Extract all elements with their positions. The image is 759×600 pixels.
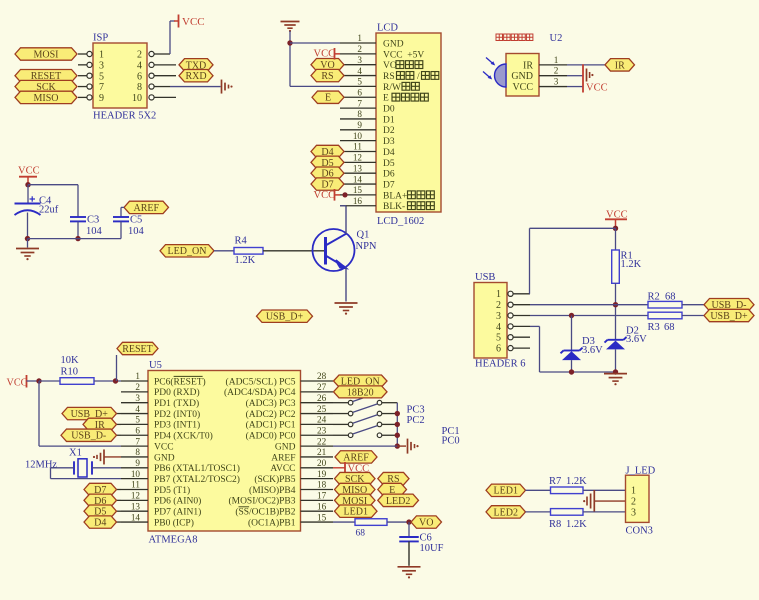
- svg-text:3.6V: 3.6V: [626, 334, 647, 345]
- svg-text:1.2K: 1.2K: [235, 255, 256, 266]
- svg-text:LED1: LED1: [494, 486, 518, 497]
- svg-text:VCC: VCC: [182, 16, 205, 28]
- svg-text:1: 1: [99, 50, 104, 61]
- svg-text:8: 8: [137, 82, 142, 93]
- svg-text:RS: RS: [383, 72, 395, 82]
- svg-text:(ADC2) PC2: (ADC2) PC2: [246, 409, 296, 420]
- svg-text:12MHz: 12MHz: [25, 459, 57, 470]
- svg-text:3: 3: [135, 393, 140, 403]
- svg-text:PD5 (T1): PD5 (T1): [154, 485, 190, 496]
- svg-text:5: 5: [99, 71, 104, 82]
- svg-text:J_LED: J_LED: [626, 465, 656, 476]
- svg-text:3: 3: [631, 507, 636, 518]
- svg-text:AREF: AREF: [343, 452, 369, 463]
- svg-text:(ADC3) PC3: (ADC3) PC3: [246, 398, 296, 409]
- svg-text:USB_D+: USB_D+: [710, 311, 748, 322]
- svg-text:CON3: CON3: [626, 526, 653, 537]
- svg-text:D7: D7: [383, 180, 395, 190]
- svg-text:D1: D1: [383, 115, 395, 125]
- svg-text:18B20: 18B20: [347, 387, 374, 398]
- svg-text:1.2K: 1.2K: [621, 259, 642, 270]
- svg-text:VCC: VCC: [154, 442, 174, 452]
- svg-text:5: 5: [135, 415, 140, 425]
- svg-text:1: 1: [554, 55, 559, 65]
- svg-text:8: 8: [357, 109, 362, 119]
- svg-text:D6: D6: [383, 170, 395, 180]
- svg-text:HEADER 5X2: HEADER 5X2: [93, 111, 156, 122]
- svg-text:U5: U5: [149, 360, 162, 371]
- svg-text:D3: D3: [383, 137, 395, 147]
- svg-text:LED1: LED1: [344, 507, 368, 518]
- svg-text:2: 2: [357, 44, 362, 54]
- svg-text:4: 4: [137, 60, 142, 71]
- svg-text:USB_D+: USB_D+: [266, 312, 304, 323]
- svg-text:20: 20: [317, 458, 327, 468]
- svg-text:D4: D4: [383, 148, 395, 158]
- svg-text:14: 14: [131, 512, 141, 522]
- svg-text:MOSI: MOSI: [33, 49, 58, 60]
- svg-text:17: 17: [317, 491, 327, 501]
- svg-text:7: 7: [99, 82, 104, 93]
- svg-text:24: 24: [317, 415, 327, 425]
- svg-text:28: 28: [317, 371, 327, 381]
- svg-text:PB0 (ICP): PB0 (ICP): [154, 517, 194, 528]
- svg-text:PB7 (XTAL2/TOSC2): PB7 (XTAL2/TOSC2): [154, 474, 240, 485]
- svg-text:104: 104: [86, 226, 103, 237]
- svg-text:3: 3: [357, 55, 362, 65]
- svg-text:2: 2: [631, 497, 636, 508]
- svg-text:D7: D7: [321, 179, 333, 190]
- svg-text:9: 9: [135, 458, 140, 468]
- svg-text:6: 6: [135, 425, 140, 435]
- svg-text:12: 12: [353, 153, 363, 163]
- svg-text:1: 1: [631, 486, 636, 497]
- svg-text:VCC: VCC: [586, 83, 608, 94]
- svg-text:RS: RS: [321, 71, 333, 82]
- svg-text:19: 19: [317, 469, 327, 479]
- svg-text:2: 2: [135, 382, 140, 392]
- svg-text:2: 2: [496, 300, 501, 311]
- svg-text:D0: D0: [383, 105, 395, 115]
- svg-text:8: 8: [135, 447, 140, 457]
- svg-text:4: 4: [496, 322, 501, 333]
- svg-text:PD4 (XCK/T0): PD4 (XCK/T0): [154, 431, 213, 442]
- svg-text:6: 6: [357, 87, 362, 97]
- svg-text:22uf: 22uf: [39, 205, 59, 216]
- svg-text:Q1: Q1: [357, 230, 370, 241]
- svg-text:C6: C6: [420, 533, 432, 544]
- svg-text:U2: U2: [550, 33, 563, 44]
- svg-text:R10: R10: [61, 366, 79, 377]
- svg-text:PD3 (INT1): PD3 (INT1): [154, 420, 200, 431]
- svg-text:PC2: PC2: [407, 415, 425, 426]
- svg-text:PD0 (RXD): PD0 (RXD): [154, 387, 200, 398]
- svg-text:2: 2: [137, 50, 142, 61]
- svg-text:X1: X1: [69, 448, 82, 459]
- svg-text:C3: C3: [87, 215, 99, 226]
- svg-text:68: 68: [356, 528, 366, 538]
- svg-text:R7: R7: [549, 476, 561, 487]
- svg-text:21: 21: [317, 447, 327, 457]
- svg-text:9: 9: [99, 93, 104, 104]
- svg-text:11: 11: [131, 480, 140, 490]
- svg-text:10: 10: [353, 131, 363, 141]
- svg-text:22: 22: [317, 436, 327, 446]
- svg-text:BLK-: BLK-: [383, 202, 405, 212]
- svg-text:15: 15: [353, 185, 363, 195]
- svg-text:5: 5: [496, 333, 501, 344]
- svg-text:15: 15: [317, 512, 327, 522]
- svg-text:R2: R2: [648, 292, 660, 303]
- svg-text:1: 1: [135, 371, 140, 381]
- svg-text:LCD_1602: LCD_1602: [377, 216, 424, 227]
- svg-text:1.2K: 1.2K: [566, 476, 587, 487]
- svg-text:VCC: VCC: [512, 82, 533, 93]
- svg-text:1: 1: [496, 289, 501, 300]
- svg-text:/: /: [417, 72, 420, 82]
- svg-text:GND: GND: [154, 453, 175, 463]
- svg-text:AVCC: AVCC: [270, 464, 295, 474]
- svg-text:14: 14: [353, 174, 363, 184]
- svg-text:(SS/OC1B)PB2: (SS/OC1B)PB2: [235, 507, 295, 518]
- svg-text:4: 4: [135, 404, 140, 414]
- svg-text:IR: IR: [615, 60, 625, 71]
- svg-text:VCC: VCC: [314, 49, 336, 60]
- svg-text:VCC +5V: VCC +5V: [383, 50, 424, 60]
- svg-text:RESET: RESET: [122, 344, 153, 355]
- svg-text:PD7 (AIN1): PD7 (AIN1): [154, 507, 201, 518]
- svg-text:(MOSI/OC2)PB3: (MOSI/OC2)PB3: [228, 496, 295, 507]
- svg-text:R8: R8: [549, 519, 561, 530]
- svg-text:6: 6: [137, 71, 142, 82]
- svg-text:3: 3: [496, 311, 501, 322]
- svg-text:E: E: [383, 94, 389, 104]
- svg-text:E: E: [325, 93, 331, 104]
- svg-text:ISP: ISP: [93, 33, 108, 44]
- svg-text:4: 4: [357, 66, 362, 76]
- svg-text:ATMEGA8: ATMEGA8: [149, 535, 198, 546]
- svg-text:C5: C5: [130, 215, 142, 226]
- svg-text:GND: GND: [275, 442, 296, 452]
- svg-text:10: 10: [131, 469, 141, 479]
- svg-text:LED2: LED2: [386, 496, 410, 507]
- svg-text:5: 5: [357, 77, 362, 87]
- svg-text:PC0: PC0: [442, 436, 460, 447]
- svg-text:6: 6: [496, 344, 501, 355]
- svg-text:(ADC0) PC0: (ADC0) PC0: [246, 431, 296, 442]
- svg-text:(MISO)PB4: (MISO)PB4: [249, 485, 296, 496]
- svg-text:1.2K: 1.2K: [566, 519, 587, 530]
- svg-text:(ADC1) PC1: (ADC1) PC1: [246, 420, 296, 431]
- svg-text:10UF: 10UF: [420, 543, 444, 554]
- svg-text:1: 1: [357, 33, 362, 43]
- svg-text:GND: GND: [383, 39, 404, 49]
- svg-text:11: 11: [353, 142, 362, 152]
- svg-text:GND: GND: [511, 71, 533, 82]
- svg-text:R4: R4: [235, 236, 248, 247]
- svg-text:(ADC4/SDA) PC4: (ADC4/SDA) PC4: [224, 387, 296, 398]
- svg-text:VCC: VCC: [18, 166, 40, 177]
- svg-text:(ADC5/SCL) PC5: (ADC5/SCL) PC5: [226, 376, 296, 387]
- svg-text:7: 7: [357, 98, 362, 108]
- svg-text:13: 13: [353, 163, 363, 173]
- svg-text:26: 26: [317, 393, 327, 403]
- svg-text:AREF: AREF: [271, 453, 295, 463]
- svg-text:16: 16: [353, 196, 363, 206]
- svg-text:27: 27: [317, 382, 327, 392]
- svg-text:3: 3: [554, 77, 559, 87]
- svg-text:D5: D5: [383, 159, 395, 169]
- svg-text:MISO: MISO: [33, 93, 58, 104]
- svg-text:R3: R3: [648, 322, 660, 333]
- svg-text:68: 68: [665, 292, 676, 303]
- svg-text:PB6 (XTAL1/TOSC1): PB6 (XTAL1/TOSC1): [154, 463, 240, 474]
- svg-text:3.6V: 3.6V: [582, 345, 603, 356]
- svg-text:2: 2: [554, 66, 559, 76]
- svg-text:13: 13: [131, 501, 141, 511]
- svg-text:D2: D2: [383, 126, 395, 136]
- svg-text:PD1 (TXD): PD1 (TXD): [154, 398, 199, 409]
- svg-text:25: 25: [317, 404, 327, 414]
- svg-text:(SCK)PB5: (SCK)PB5: [254, 474, 295, 485]
- svg-text:16: 16: [317, 501, 327, 511]
- svg-text:18: 18: [317, 480, 327, 490]
- svg-text:LCD: LCD: [377, 22, 398, 33]
- svg-text:PC6(RESET): PC6(RESET): [154, 376, 206, 387]
- svg-text:23: 23: [317, 425, 327, 435]
- svg-text:AREF: AREF: [133, 203, 159, 214]
- svg-text:3: 3: [99, 60, 104, 71]
- svg-text:LED_ON: LED_ON: [168, 246, 207, 257]
- svg-text:7: 7: [135, 436, 140, 446]
- svg-text:PD2 (INT0): PD2 (INT0): [154, 409, 200, 420]
- svg-text:BLA+: BLA+: [383, 191, 407, 201]
- svg-text:(OC1A)PB1: (OC1A)PB1: [248, 517, 296, 528]
- svg-text:HEADER 6: HEADER 6: [475, 359, 525, 370]
- svg-text:104: 104: [128, 226, 145, 237]
- svg-text:USB: USB: [475, 272, 495, 283]
- svg-text:LED2: LED2: [494, 507, 518, 518]
- svg-text:VCC: VCC: [314, 190, 336, 201]
- svg-text:VO: VO: [419, 517, 433, 528]
- svg-text:9: 9: [357, 120, 362, 130]
- svg-text:PD6 (AIN0): PD6 (AIN0): [154, 496, 201, 507]
- svg-text:R/W: R/W: [383, 83, 401, 93]
- svg-text:68: 68: [664, 322, 675, 333]
- svg-text:10: 10: [132, 93, 142, 104]
- svg-text:10K: 10K: [61, 355, 80, 366]
- svg-text:D4: D4: [94, 517, 106, 528]
- svg-text:VCC: VCC: [7, 378, 28, 389]
- svg-text:USB_D-: USB_D-: [71, 431, 106, 442]
- svg-text:VO: VO: [383, 61, 397, 71]
- svg-text:RXD: RXD: [185, 71, 206, 82]
- svg-text:IR: IR: [523, 60, 533, 71]
- svg-text:NPN: NPN: [356, 241, 377, 252]
- svg-text:12: 12: [131, 491, 141, 501]
